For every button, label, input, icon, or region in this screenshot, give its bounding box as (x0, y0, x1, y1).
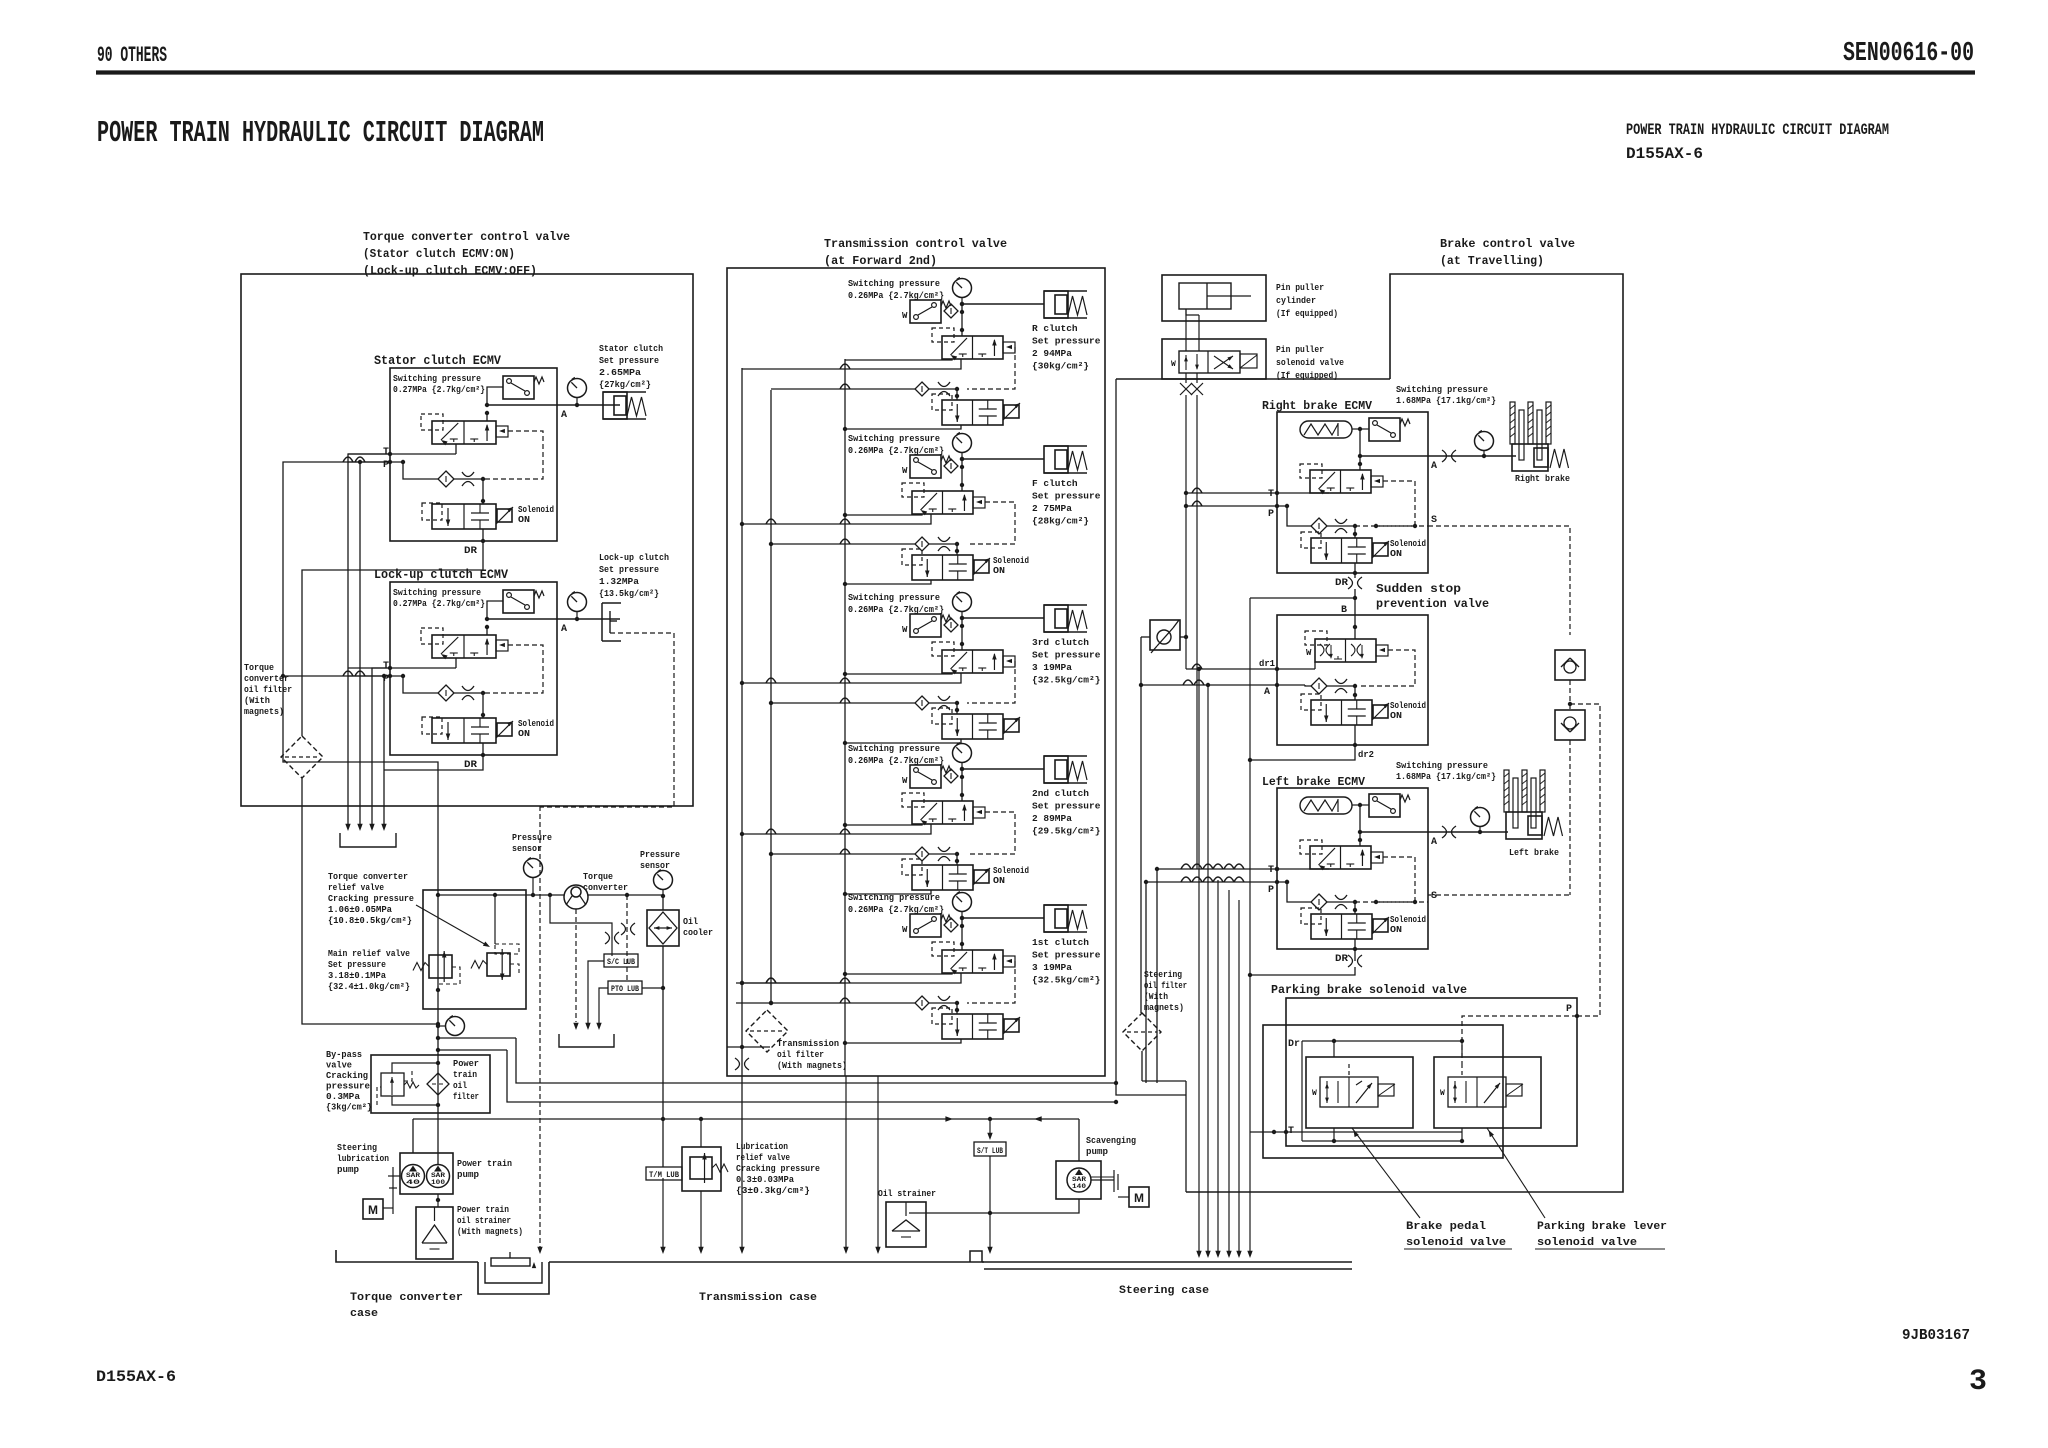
svg-text:Solenoid: Solenoid (1390, 539, 1426, 549)
svg-text:cylinder: cylinder (1276, 295, 1316, 306)
pilot dashed to filter junction (967, 502, 1015, 544)
sudden stop valve side actuator (1376, 645, 1388, 656)
torque converter relief valve (487, 953, 510, 976)
svg-text:0.3±0.03MPa: 0.3±0.03MPa (736, 1175, 795, 1185)
solenoid valve pilot dashed (932, 708, 952, 724)
pump box (400, 1153, 453, 1194)
svg-text:W: W (902, 776, 908, 786)
brake pedal valve wires (1333, 1041, 1335, 1057)
solenoid return wire (845, 425, 961, 429)
proportional valve (1310, 470, 1371, 493)
svg-text:(at Travelling): (at Travelling) (1440, 254, 1544, 268)
solenoid valve (912, 555, 973, 580)
pilot filter (1311, 678, 1327, 694)
supply wire with filter and orifice (771, 543, 915, 545)
svg-text:1.68MPa {17.1kg/cm²}: 1.68MPa {17.1kg/cm²} (1396, 772, 1496, 782)
orifice 2 (938, 696, 950, 701)
svg-text:100: 100 (431, 1179, 446, 1186)
svg-text:oil filter: oil filter (777, 1050, 824, 1060)
svg-text:P: P (1268, 509, 1274, 520)
stator clutch actuator (603, 391, 646, 393)
svg-text:S: S (1431, 891, 1437, 902)
solenoid valve pilot dashed (422, 717, 442, 734)
svg-text:Right brake: Right brake (1515, 473, 1570, 484)
steering filter drop (1185, 1095, 1187, 1192)
wire A to clutch (962, 458, 1044, 460)
proportional valve (942, 650, 1003, 673)
svg-text:Set pressure: Set pressure (1032, 801, 1101, 812)
valve return wire B (742, 514, 931, 524)
svg-text:2 75MPa: 2 75MPa (1032, 503, 1072, 514)
svg-text:ON: ON (993, 566, 1005, 576)
wire DR (1354, 563, 1356, 573)
pressure gauge (953, 593, 972, 612)
case divider inner tub (485, 1262, 542, 1283)
tag PTO LUB (608, 981, 642, 994)
sudden stop dr1 wire (1186, 668, 1246, 670)
svg-text:magnets): magnets) (1144, 1003, 1184, 1013)
pilot filter 2 (915, 537, 929, 551)
svg-text:DR: DR (1335, 954, 1348, 965)
svg-text:ON: ON (1390, 711, 1402, 721)
small tank (559, 1034, 614, 1047)
sudden stop outer link (1250, 597, 1355, 599)
svg-text:PTO LUB: PTO LUB (611, 985, 639, 994)
svg-text:(at Forward 2nd): (at Forward 2nd) (824, 254, 937, 268)
svg-text:3.18±0.1MPa: 3.18±0.1MPa (328, 971, 387, 981)
valve return wire A (845, 673, 952, 674)
feed wire down (961, 618, 963, 650)
supply wire with filter and orifice (771, 388, 915, 390)
check valve pilot branch (1570, 704, 1600, 1016)
svg-text:SEN00616-00: SEN00616-00 (1843, 39, 1974, 69)
proportional valve pilot dashed (421, 414, 443, 430)
pilot filter (1311, 518, 1327, 534)
dashed line with orifice (626, 895, 628, 980)
dr2 wire down (1250, 745, 1355, 760)
supply line to steering filter (516, 1038, 1186, 1095)
svg-text:SAR: SAR (406, 1172, 421, 1179)
stator DR wire to oil filter (302, 541, 483, 736)
solenoid valve (432, 504, 496, 529)
solenoid valve (912, 865, 973, 890)
transmission drain to tank 2 (877, 1076, 879, 1249)
pilot dashed to filter junction (967, 812, 1015, 854)
tag S/T LUB (974, 1142, 1006, 1156)
svg-text:POWER TRAIN HYDRAULIC CIRCUIT: POWER TRAIN HYDRAULIC CIRCUIT DIAGRAM (1626, 121, 1889, 139)
svg-text:(Stator clutch ECMV:ON): (Stator clutch ECMV:ON) (363, 247, 515, 261)
pressure switch (1369, 418, 1400, 441)
svg-text:(With magnets): (With magnets) (777, 1061, 847, 1071)
clutch actuator (1044, 755, 1087, 757)
pilot filter (944, 304, 958, 318)
solenoid return wire (845, 890, 931, 894)
wire A to clutch (962, 617, 1044, 619)
lubrication relief valve box (682, 1147, 721, 1191)
pressure gauge (568, 379, 587, 398)
svg-text:Switching pressure: Switching pressure (848, 744, 940, 754)
parking brake inner box (1263, 1025, 1503, 1158)
svg-text:Switching pressure: Switching pressure (848, 893, 940, 903)
right brake DR orifice (1348, 577, 1353, 589)
tank notch (970, 1251, 982, 1262)
small tank arrows (573, 1023, 578, 1030)
svg-text:pump: pump (337, 1165, 359, 1175)
svg-text:{29.5kg/cm²}: {29.5kg/cm²} (1032, 826, 1100, 837)
clutch actuator (1044, 445, 1087, 447)
pilot filter 2 (915, 996, 929, 1010)
svg-text:Torque: Torque (244, 663, 274, 673)
proportional valve (432, 421, 496, 444)
lube bus arrows (945, 1116, 953, 1121)
clutch actuator (1044, 604, 1087, 606)
valve return wire B (742, 824, 931, 834)
clutch actuator (1044, 904, 1087, 906)
supply vertical to steering filter (1115, 379, 1117, 1083)
valve return wire B (742, 973, 961, 983)
solenoid valve (1311, 700, 1372, 725)
wire DR (482, 743, 484, 755)
pilot dashed loop (1376, 857, 1415, 902)
svg-text:0.27MPa {2.7kg/cm²}: 0.27MPa {2.7kg/cm²} (393, 385, 485, 395)
svg-text:train: train (453, 1070, 477, 1080)
valve return wire B (742, 359, 961, 369)
transmission bus line 2 (770, 390, 772, 1003)
transmission supply stub (736, 1002, 771, 1004)
leader to parking lever label (1487, 1128, 1545, 1218)
right brake P wire (1186, 505, 1287, 507)
svg-text:W: W (1440, 1089, 1445, 1098)
svg-text:ON: ON (993, 876, 1005, 886)
solenoid valve pilot dashed (932, 394, 952, 410)
sudden stop valve (1315, 639, 1376, 662)
pilot dashed to filter junction (967, 347, 1015, 389)
case divider outer tub (478, 1262, 549, 1294)
valve side actuator (1371, 852, 1383, 863)
svg-text:Set pressure: Set pressure (599, 564, 659, 575)
svg-text:SAR: SAR (1072, 1176, 1087, 1183)
torque converter oil filter (281, 736, 323, 778)
proportional valve pilot dashed (1300, 464, 1322, 478)
steering case tank line (982, 1261, 1352, 1263)
svg-text:Left brake ECMV: Left brake ECMV (1262, 775, 1366, 789)
wire to solenoid valve (482, 479, 484, 504)
svg-text:P: P (1566, 1004, 1572, 1015)
svg-text:Transmission control valve: Transmission control valve (824, 237, 1007, 251)
solenoid valve pilot dashed (1301, 908, 1321, 924)
orifice (1335, 519, 1347, 524)
svg-text:Scavenging: Scavenging (1086, 1136, 1136, 1146)
svg-text:Transmission case: Transmission case (699, 1292, 817, 1304)
svg-text:oil: oil (453, 1081, 468, 1091)
svg-text:Power train: Power train (457, 1159, 512, 1169)
valve side actuator (973, 807, 985, 818)
P bundle line 2 (359, 462, 361, 826)
proportional valve pilot dashed (421, 628, 443, 644)
svg-text:90 OTHERS: 90 OTHERS (97, 43, 167, 68)
transmission bus line 1 (741, 368, 743, 1192)
svg-text:Pressure: Pressure (512, 833, 552, 843)
svg-text:lubrication: lubrication (337, 1154, 389, 1164)
svg-text:Dr: Dr (1288, 1039, 1300, 1050)
lock-up DR wire (384, 755, 483, 770)
pilot dashed to filter junction (967, 661, 1015, 703)
transmission bus drain arrows (844, 1060, 846, 1076)
pilot filter 2 (915, 382, 929, 396)
scavenging pump box (1056, 1161, 1101, 1199)
svg-text:POWER TRAIN HYDRAULIC CIRCUIT: POWER TRAIN HYDRAULIC CIRCUIT DIAGRAM (97, 116, 544, 151)
solenoid return wire (845, 580, 931, 584)
steering filter wires (1141, 1051, 1143, 1081)
parking brake lever solenoid valve (1448, 1077, 1506, 1107)
torque converter case tank line (336, 1250, 478, 1262)
svg-text:{13.5kg/cm²}: {13.5kg/cm²} (599, 588, 659, 599)
svg-text:9JB03167: 9JB03167 (1902, 1328, 1970, 1344)
svg-text:Switching pressure: Switching pressure (848, 279, 940, 289)
accumulator (1300, 421, 1352, 438)
tag S/C LUB (604, 954, 638, 967)
transmission filter feed (727, 1046, 770, 1048)
svg-text:Steering: Steering (1144, 970, 1182, 980)
oil strainer box (886, 1202, 926, 1247)
svg-text:A: A (561, 410, 567, 421)
svg-text:Right brake ECMV: Right brake ECMV (1262, 399, 1373, 413)
svg-text:Sudden stop: Sudden stop (1376, 582, 1461, 596)
power train oil filter (427, 1073, 449, 1095)
svg-text:W: W (902, 625, 908, 635)
orifice 2 (938, 382, 950, 387)
tag T/M LUB (646, 1167, 682, 1180)
wire DR (482, 529, 484, 541)
solenoid valve (432, 718, 496, 743)
svg-text:Solenoid: Solenoid (993, 866, 1029, 876)
svg-text:140: 140 (1072, 1183, 1087, 1190)
A wire (1246, 684, 1305, 686)
port S dashed (1355, 901, 1428, 903)
check valve lower (1555, 710, 1585, 740)
proportional valve (1310, 846, 1371, 869)
pilot filter (944, 459, 958, 473)
svg-text:Switching pressure: Switching pressure (393, 588, 481, 598)
svg-text:W: W (902, 466, 908, 476)
by-pass pilot dashed (377, 1087, 381, 1105)
svg-text:Solenoid: Solenoid (1390, 701, 1426, 711)
supply branch vertical (1140, 637, 1142, 1013)
pilot dashed loop (1376, 481, 1415, 526)
pressure sensor gauge 1 (524, 859, 543, 878)
brake pedal solenoid valve (1320, 1077, 1378, 1107)
svg-text:2.65MPa: 2.65MPa (599, 367, 641, 378)
T return bundle line 3 (372, 668, 390, 826)
left brake DR wire (1354, 949, 1356, 961)
torque converter feed line (438, 894, 564, 896)
P branch to lock-up (283, 675, 390, 677)
svg-text:A: A (1431, 837, 1437, 848)
svg-text:(With magnets): (With magnets) (457, 1227, 523, 1237)
steering case double line (984, 1268, 1352, 1270)
svg-text:S/C LUB: S/C LUB (607, 958, 635, 967)
wire P (348, 675, 403, 677)
solenoid valve pilot dashed (932, 1008, 952, 1024)
svg-text:Oil: Oil (683, 917, 699, 927)
svg-text:2 94MPa: 2 94MPa (1032, 348, 1072, 359)
power train pump circle (427, 1165, 450, 1188)
svg-text:solenoid valve: solenoid valve (1406, 1237, 1506, 1249)
relief valve assembly box (423, 890, 526, 1009)
solenoid actuator (497, 723, 512, 736)
svg-text:pump: pump (457, 1170, 479, 1180)
oil cooler box (647, 910, 679, 946)
ECMV box (390, 368, 557, 541)
bundle arrows (345, 824, 350, 831)
check valve upper (1555, 650, 1585, 680)
wire dr2 (1354, 725, 1356, 745)
svg-text:sensor: sensor (640, 861, 670, 871)
valve return wire A (845, 514, 922, 515)
sudden stop valve pilot dashed (1305, 631, 1327, 645)
pressure gauge (953, 279, 972, 298)
ECMV box (390, 582, 557, 755)
S T LUB wires (989, 1119, 991, 1137)
svg-text:Lock-up clutch: Lock-up clutch (599, 552, 669, 563)
brake ECMV box (1277, 788, 1428, 949)
svg-text:Pin puller: Pin puller (1276, 282, 1324, 293)
parking lever valve wires (1461, 1041, 1463, 1057)
scavenging motor (1129, 1187, 1149, 1207)
check valve near transmission (1150, 620, 1180, 650)
svg-text:Solenoid: Solenoid (518, 719, 554, 729)
main relief pilot dashed (438, 967, 460, 990)
svg-text:oil filter: oil filter (1144, 981, 1187, 991)
pin puller solenoid valve symbol (1179, 351, 1240, 373)
svg-text:relief valve: relief valve (736, 1153, 790, 1163)
wire T (348, 667, 456, 669)
svg-text:Set pressure: Set pressure (1032, 650, 1101, 661)
valve side actuator (1003, 342, 1015, 353)
proportional valve (912, 491, 973, 514)
svg-text:{32.5kg/cm²}: {32.5kg/cm²} (1032, 975, 1100, 986)
svg-text:W: W (1306, 648, 1312, 658)
oil cooler outlet down (662, 946, 664, 1167)
pressure sensor gauge 2 (654, 871, 673, 890)
left bus verticals (1156, 869, 1158, 1083)
svg-text:{30kg/cm²}: {30kg/cm²} (1032, 361, 1089, 372)
lock-up clutch actuator (601, 603, 603, 641)
svg-text:(With: (With (244, 696, 270, 706)
svg-text:{27kg/cm²}: {27kg/cm²} (599, 379, 651, 390)
svg-text:Set pressure: Set pressure (1032, 950, 1101, 961)
valve return wire B (742, 673, 961, 683)
feed wire down (961, 918, 963, 950)
svg-text:W: W (902, 925, 908, 935)
filter outlet wire (302, 778, 438, 1024)
P bundle line 4 (383, 676, 385, 826)
pilot filter (944, 618, 958, 632)
svg-text:Set pressure: Set pressure (1032, 336, 1101, 347)
svg-text:Pressure: Pressure (640, 850, 680, 860)
svg-text:T: T (1268, 865, 1274, 876)
small tank under torque converter control valve (340, 833, 396, 847)
orifice (454, 692, 483, 694)
svg-text:40: 40 (406, 1179, 421, 1186)
valve side actuator (973, 497, 985, 508)
wire P (348, 461, 403, 463)
valve return wire A (845, 973, 952, 974)
bundle arrows into steering case (1196, 1251, 1201, 1258)
svg-text:Torque converter: Torque converter (350, 1292, 463, 1304)
right brake T wire (1186, 492, 1277, 494)
svg-text:ON: ON (518, 729, 530, 739)
svg-text:relief valve: relief valve (328, 883, 384, 893)
valve side actuator (1003, 656, 1015, 667)
pressure switch (910, 614, 941, 637)
svg-text:ON: ON (1390, 549, 1402, 559)
main relief valve (429, 955, 452, 978)
brake pedal solenoid valve box (1306, 1057, 1413, 1128)
svg-text:3rd clutch: 3rd clutch (1032, 637, 1089, 648)
parking brake dashed P line (1462, 1016, 1577, 1064)
svg-text:0.27MPa {2.7kg/cm²}: 0.27MPa {2.7kg/cm²} (393, 599, 485, 609)
pressure switch (503, 590, 534, 613)
check valve connector (1569, 680, 1571, 710)
svg-text:converter: converter (244, 674, 289, 684)
solenoid actuator (1004, 405, 1019, 418)
steering oil filter (1123, 1013, 1161, 1051)
pressure gauge (953, 893, 972, 912)
svg-text:prevention valve: prevention valve (1376, 597, 1489, 611)
svg-text:Brake control valve: Brake control valve (1440, 237, 1575, 251)
valve side actuator (496, 640, 508, 651)
by-pass valve box (371, 1055, 490, 1113)
solenoid valve pilot dashed (422, 503, 442, 520)
svg-text:Main relief valve: Main relief valve (328, 949, 410, 959)
solenoid actuator (1373, 543, 1388, 556)
oil strainer suction line (909, 1199, 1079, 1213)
solenoid valve (942, 1014, 1003, 1039)
S C LUB drain (588, 961, 604, 1025)
P supply bus from relief valve (283, 462, 438, 806)
pin puller cylinder box (1162, 275, 1266, 321)
valve return wire A (845, 359, 952, 360)
left brake gauge (1471, 808, 1490, 827)
svg-text:T: T (1268, 489, 1274, 500)
wire A to clutch (962, 303, 1044, 305)
dashed drain from torque converter (575, 909, 577, 1022)
feed wire down (961, 459, 963, 491)
svg-text:ON: ON (518, 515, 530, 525)
svg-text:Set pressure: Set pressure (328, 960, 386, 970)
A line (1360, 831, 1428, 833)
wire to A (1359, 805, 1361, 832)
left brake P wire (1146, 881, 1287, 883)
solenoid valve (1311, 538, 1372, 563)
svg-text:(With: (With (1144, 992, 1168, 1002)
svg-text:Switching pressure: Switching pressure (1396, 385, 1488, 395)
svg-text:Cracking pressure: Cracking pressure (328, 894, 414, 904)
orifice 2 (938, 847, 950, 852)
orifice (1335, 895, 1347, 900)
relief branch wire (438, 1037, 516, 1039)
right brake actuator (1510, 402, 1515, 444)
orifice 2 (938, 537, 950, 542)
solenoid valve (1311, 914, 1372, 939)
svg-text:dr1: dr1 (1259, 659, 1276, 669)
proportional valve pilot dashed (902, 793, 924, 807)
svg-text:DR: DR (1335, 578, 1348, 589)
supply wire with filter and orifice (771, 1002, 915, 1004)
orifice (454, 478, 483, 480)
solenoid return wire (845, 739, 961, 743)
